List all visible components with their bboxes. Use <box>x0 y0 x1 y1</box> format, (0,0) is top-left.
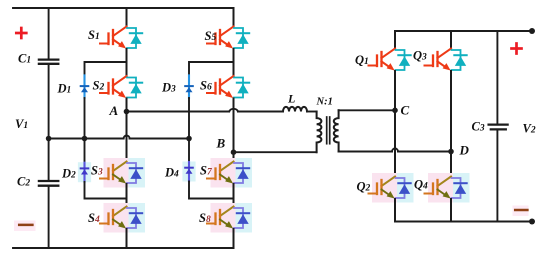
wire C3 branch upper <box>496 31 498 124</box>
wire leg2 top <box>233 8 235 27</box>
capacitor C1 <box>39 60 58 64</box>
wire clamp top leg1 <box>85 62 127 76</box>
svg-text:D: D <box>459 143 470 158</box>
junction D3 D4 midpoint <box>186 136 192 142</box>
wire capacitor branch lower <box>48 187 50 248</box>
svg-text:V2: V2 <box>523 122 536 136</box>
wire to node D <box>398 151 451 153</box>
svg-text:C1: C1 <box>18 52 31 66</box>
terminal dot bottom right <box>529 219 535 225</box>
wire secondary to node D left <box>339 151 392 153</box>
diode D1 <box>81 75 89 98</box>
wire D3 to neutral <box>188 98 190 139</box>
svg-text:S5: S5 <box>205 29 217 43</box>
svg-text:N:1: N:1 <box>316 97 333 108</box>
wire clamp top leg2 <box>189 62 234 76</box>
wire neutral to D2 <box>84 139 86 163</box>
minus terminal left <box>14 221 36 232</box>
wire C3 branch lower <box>496 131 498 222</box>
switch Q4 <box>425 173 470 203</box>
svg-text:C2: C2 <box>17 175 30 189</box>
svg-text:S1: S1 <box>88 28 100 42</box>
capacitor C2 <box>39 181 58 186</box>
svg-text:D1: D1 <box>57 82 72 96</box>
wire neutral link left <box>49 138 124 140</box>
svg-text:C: C <box>401 103 410 118</box>
switch Q3 <box>425 49 467 71</box>
svg-text:D2: D2 <box>61 167 76 181</box>
wire Q3 to node D <box>450 71 452 152</box>
switch Q2 <box>369 173 414 203</box>
wire neutral link right <box>130 138 189 140</box>
wire hop over leg 2 <box>229 109 238 112</box>
wire node C to Q2 <box>394 110 396 176</box>
wire Q4 to bottom rail <box>450 199 452 222</box>
wire bottom-left rail <box>13 247 234 249</box>
svg-text:S3: S3 <box>91 164 103 178</box>
svg-text:S4: S4 <box>88 211 100 225</box>
switch S4 <box>100 203 145 233</box>
wire leg Q1 top <box>394 31 396 49</box>
transformer secondary winding <box>334 110 339 151</box>
svg-text:D4: D4 <box>164 166 179 180</box>
wire A line to inductor <box>238 111 283 113</box>
svg-text:Q1: Q1 <box>355 53 369 67</box>
wire capacitor branch upper <box>48 8 50 58</box>
wire capacitor branch middle <box>48 65 50 180</box>
wire inductor to transformer <box>307 111 317 113</box>
wire top-left rail <box>13 7 234 9</box>
node A <box>124 109 130 115</box>
diode D4 <box>182 162 195 182</box>
wire S1 to S2 <box>126 49 128 76</box>
wire bottom-right rail <box>395 221 532 223</box>
switch Q1 <box>369 49 411 71</box>
wire hop over leg Q1 <box>392 149 398 152</box>
capacitor C3 <box>489 125 508 130</box>
wire S3 to S4 <box>126 184 128 207</box>
wire top-right rail <box>395 30 532 32</box>
node C <box>392 108 398 114</box>
node B <box>231 149 237 155</box>
wire node A line <box>127 111 230 113</box>
wire node D to Q4 <box>450 152 452 177</box>
switch S5 <box>207 27 249 49</box>
wire leg1 top <box>126 8 128 27</box>
wire S6 to node B <box>233 99 235 153</box>
wire secondary to node C <box>339 109 395 111</box>
inductor L <box>283 107 307 112</box>
minus terminal right <box>513 206 529 217</box>
wire node B line <box>234 151 317 153</box>
svg-text:L: L <box>287 92 295 106</box>
wire S4 to bottom rail <box>126 229 128 248</box>
svg-text:Q3: Q3 <box>413 49 427 63</box>
wire hop over leg 1 <box>124 136 130 139</box>
svg-text:A: A <box>109 103 119 118</box>
wire node A to S3 <box>126 112 128 162</box>
svg-text:B: B <box>216 136 226 151</box>
wire Q1 to node C <box>394 71 396 110</box>
svg-text:S8: S8 <box>199 211 211 225</box>
svg-text:V1: V1 <box>15 117 28 131</box>
wire S8 to bottom rail <box>233 229 235 248</box>
junction capacitor midpoint <box>46 136 52 142</box>
wire S7 to S8 <box>233 184 235 207</box>
plus terminal right <box>512 44 522 54</box>
wire node B to S7 <box>233 152 235 161</box>
node D <box>448 149 454 155</box>
wire D2 to clamp bottom leg1 <box>85 182 127 199</box>
wire S2 to node A <box>126 99 128 112</box>
svg-text:C3: C3 <box>472 120 485 134</box>
svg-text:D3: D3 <box>161 81 176 95</box>
wire leg Q3 top <box>450 31 452 49</box>
transformer core <box>327 117 330 144</box>
switch S7 <box>207 158 252 188</box>
switch S6 <box>207 76 249 98</box>
svg-text:S2: S2 <box>93 79 105 93</box>
wire Q2 to bottom rail <box>394 199 396 222</box>
wire neutral to D4 <box>188 139 190 163</box>
diode D3 <box>185 75 193 98</box>
svg-text:Q2: Q2 <box>357 180 371 194</box>
svg-text:Q4: Q4 <box>414 178 428 192</box>
switch S8 <box>207 203 252 233</box>
switch S2 <box>100 76 142 98</box>
terminal dot top right <box>529 28 535 34</box>
switch S1 <box>100 27 142 49</box>
plus terminal left <box>16 28 26 38</box>
wire D4 to clamp bottom leg2 <box>189 182 234 199</box>
svg-text:S6: S6 <box>200 79 212 93</box>
switch S3 <box>100 158 145 188</box>
wire S5 to S6 <box>233 49 235 76</box>
junction D1 D2 midpoint <box>82 136 88 142</box>
transformer primary winding <box>317 112 322 153</box>
diode D2 <box>78 162 91 182</box>
wire D1 to neutral <box>84 98 86 139</box>
